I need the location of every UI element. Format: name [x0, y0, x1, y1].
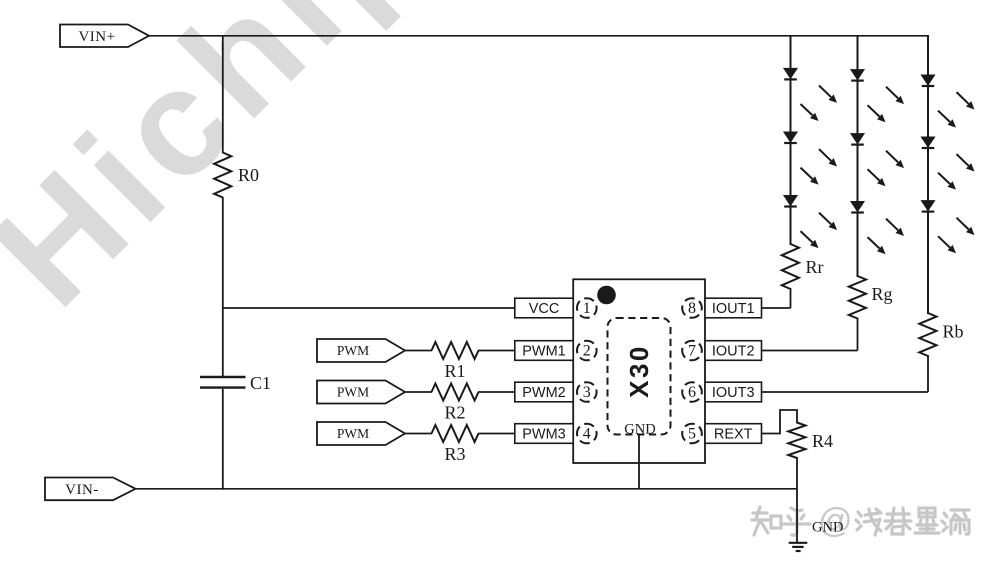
input flag PWM2: [317, 381, 405, 404]
pin 1 marker dot: [597, 286, 616, 305]
svg-text:VIN-: VIN-: [65, 482, 99, 498]
wire Rb to IOUT3: [762, 355, 929, 392]
resistor R4: [788, 423, 833, 459]
pin 8 circle: [682, 298, 702, 318]
LED D1 (red string): [784, 68, 797, 79]
LED D8 (blue string): [921, 137, 934, 148]
op-amp U1 X30 chip body: [573, 279, 705, 463]
resistor Rr: [782, 244, 824, 289]
LED D7 emission arrows: [938, 92, 975, 128]
node GND label: [812, 520, 843, 536]
svg-text:8: 8: [688, 300, 696, 317]
wire PWM3 flag to R3: [405, 433, 432, 435]
svg-text:Rg: Rg: [872, 284, 893, 304]
wire R3 to pin: [478, 433, 515, 435]
wire R2 to pin: [478, 391, 515, 393]
svg-text:PWM1: PWM1: [522, 344, 566, 360]
pin label box PWM1: [515, 341, 573, 361]
svg-text:REXT: REXT: [714, 427, 753, 443]
wire Rr to IOUT1: [762, 288, 791, 308]
pin 4 circle: [577, 424, 597, 444]
chip GND pin label: [624, 422, 655, 438]
input flag VIN+: [60, 25, 149, 48]
wire LED string red anode column: [790, 36, 792, 245]
svg-text:R4: R4: [812, 431, 833, 451]
wire PWM1 flag to R1: [405, 350, 432, 352]
pin 2 circle: [577, 341, 597, 361]
svg-text:Rr: Rr: [806, 257, 824, 277]
svg-text:VIN+: VIN+: [78, 29, 115, 45]
svg-text:R1: R1: [444, 361, 465, 381]
watermark Hichip (decorative): [0, 0, 455, 340]
svg-text:C1: C1: [250, 373, 271, 393]
svg-text:GND: GND: [624, 422, 655, 438]
svg-text:X30: X30: [624, 344, 654, 398]
resistor R3: [432, 425, 479, 464]
watermark zhihu (decorative): [752, 507, 781, 535]
pin label box PWM2: [515, 382, 573, 402]
pin label box PWM3: [515, 424, 573, 444]
LED D5 (green string): [851, 134, 864, 145]
wire R0 to C1: [222, 197, 224, 376]
svg-text:IOUT1: IOUT1: [712, 301, 755, 317]
wire LED string green anode column: [857, 36, 859, 277]
svg-text:1: 1: [583, 300, 591, 317]
LED D9 emission arrows: [938, 218, 975, 254]
svg-text:4: 4: [583, 426, 591, 443]
LED D9 (blue string): [921, 201, 934, 212]
pin 7 circle: [682, 341, 702, 361]
svg-text:5: 5: [688, 426, 696, 443]
LED D4 (green string): [851, 70, 864, 81]
svg-text:R3: R3: [444, 444, 465, 464]
pin 6 circle: [682, 382, 702, 402]
ground symbol: [789, 543, 808, 551]
svg-text:2: 2: [583, 343, 591, 360]
LED D3 (red string): [784, 196, 797, 207]
LED D1 emission arrows: [801, 86, 838, 122]
svg-text:PWM: PWM: [337, 426, 369, 441]
LED D2 (red string): [784, 132, 797, 143]
LED D4 emission arrows: [868, 87, 905, 123]
svg-text:IOUT2: IOUT2: [712, 344, 755, 360]
pin 1 circle: [577, 298, 597, 318]
resistor Rg: [849, 276, 893, 319]
svg-text:7: 7: [688, 343, 696, 360]
wire VCC net: [223, 307, 515, 309]
pin 3 circle: [577, 382, 597, 402]
wire R4 to ground: [796, 457, 798, 543]
pin 5 circle: [682, 424, 702, 444]
wire C1 to bottom rail: [222, 389, 224, 490]
LED D7 (blue string): [921, 75, 934, 86]
LED D8 emission arrows: [938, 154, 975, 190]
resistor Rb: [919, 313, 963, 356]
wire LED string blue anode column: [927, 36, 929, 314]
LED D2 emission arrows: [801, 149, 838, 185]
svg-text:PWM2: PWM2: [522, 385, 566, 401]
svg-text:R0: R0: [238, 165, 259, 185]
chip inner dashed outline: [608, 318, 671, 435]
svg-text:PWM: PWM: [337, 343, 369, 358]
resistor R2: [432, 384, 479, 423]
svg-text:PWM3: PWM3: [522, 427, 566, 443]
wire Rg to IOUT2: [762, 318, 858, 351]
svg-text:R2: R2: [444, 403, 465, 423]
input flag PWM1: [317, 339, 405, 362]
input flag PWM3: [317, 422, 405, 445]
wire VIN+ top rail: [149, 35, 929, 37]
wire R1 to pin: [478, 350, 515, 352]
pin label box IOUT1: [705, 298, 762, 318]
svg-text:VCC: VCC: [529, 301, 560, 317]
svg-text:GND: GND: [812, 520, 843, 536]
wire left rail upper: [222, 36, 224, 154]
input flag VIN-: [45, 478, 136, 501]
chip name X30: [624, 344, 654, 398]
wire bottom rail: [136, 488, 798, 490]
LED D6 emission arrows: [868, 219, 905, 255]
LED D6 (green string): [851, 202, 864, 213]
svg-text:PWM: PWM: [337, 385, 369, 400]
capacitor C1: [200, 373, 271, 393]
pin label box IOUT2: [705, 341, 762, 361]
svg-text:3: 3: [583, 384, 591, 401]
svg-text:Rb: Rb: [943, 322, 964, 342]
LED D5 emission arrows: [868, 151, 905, 187]
LED D3 emission arrows: [801, 213, 838, 249]
pin label box IOUT3: [705, 382, 762, 402]
resistor R0: [214, 153, 259, 198]
svg-text:IOUT3: IOUT3: [712, 385, 755, 401]
resistor R1: [432, 342, 479, 381]
wire REXT to R4: [762, 410, 798, 434]
svg-text:6: 6: [688, 384, 696, 401]
wire PWM2 flag to R2: [405, 391, 432, 393]
pin label box REXT: [705, 424, 762, 444]
pin label box VCC: [515, 298, 573, 318]
wire chip GND to bottom rail: [638, 435, 640, 489]
